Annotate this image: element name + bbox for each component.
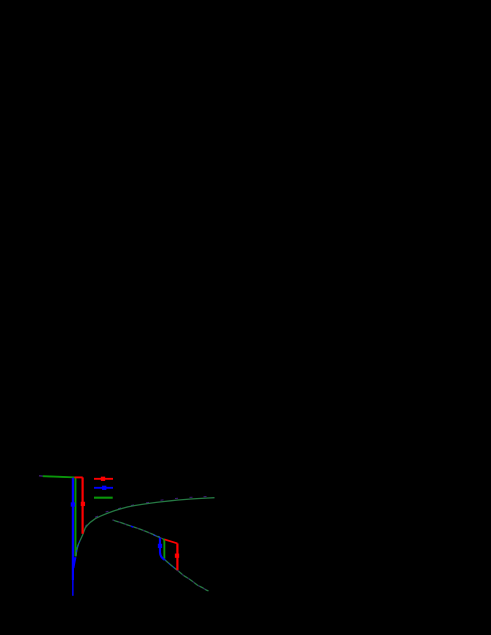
lower branch after structure-2 jump: teal part <box>165 560 178 571</box>
blue dash on descending branch <box>131 526 133 527</box>
rising curve lower reinforcement <box>76 545 78 557</box>
seagreen upper branch horizontal under green <box>43 476 75 477</box>
blue square marker (structure 1) <box>71 502 75 506</box>
blue square marker (structure 2) <box>158 544 162 548</box>
red jump vertical (structure 2) <box>176 543 178 570</box>
seagreen rising curve from cusp bottom <box>76 498 215 557</box>
purple dashed lead-in segment of upper branch <box>39 475 43 477</box>
legend green line <box>94 497 113 499</box>
blue dashes on upper branch before structure-2 jump <box>153 535 159 537</box>
legend red line <box>94 478 113 480</box>
blue dashed overlap on lower branch <box>165 560 178 571</box>
purple ticks on descending branch tail <box>177 570 208 591</box>
red square marker (structure 1) <box>81 502 85 506</box>
red square marker (structure 2) <box>175 554 179 558</box>
blue jump vertical (structure 1) <box>72 478 74 580</box>
legend red marker <box>101 477 105 481</box>
green vertical (structure 2) <box>163 539 166 559</box>
legend blue marker <box>102 486 106 490</box>
green descending branch upper part <box>113 520 164 539</box>
blue rising sliver near cusp <box>73 557 75 568</box>
legend blue line <box>94 487 113 489</box>
purple ticks on descending branch upper part <box>113 520 164 539</box>
red path sloping segment (structure 2) <box>165 539 178 543</box>
purple dash specks along rising curve <box>85 497 206 527</box>
red path horizontal (structure 1) <box>75 476 83 478</box>
green descending branch tail <box>177 570 208 591</box>
blue dashed overlap on lower rising curve <box>76 539 81 553</box>
green equilibrium path: upper horizontal <box>43 476 75 477</box>
green equilibrium path: cusp vertical drop <box>74 477 76 556</box>
blue jump (structure 2) <box>160 538 164 560</box>
red jump vertical (structure 1) <box>81 477 83 533</box>
blue jump thin tail <box>72 580 74 596</box>
